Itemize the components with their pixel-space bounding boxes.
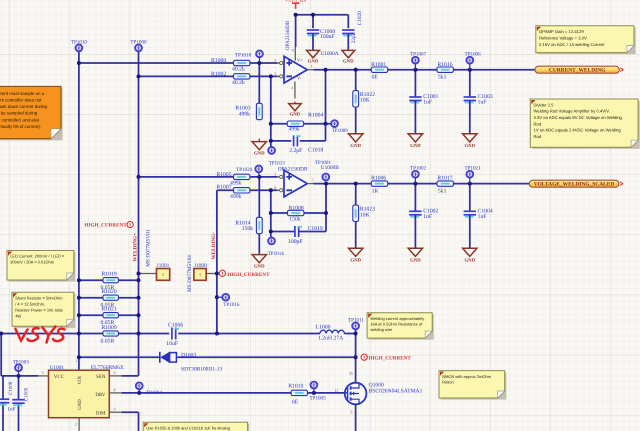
- svg-text:TP1020: TP1020: [236, 167, 253, 173]
- test point TP1006: [466, 57, 473, 64]
- svg-text:499k: 499k: [230, 181, 242, 187]
- wire stage2 R1014 column: [258, 177, 260, 254]
- note shunt resistor: [12, 292, 75, 328]
- wire RS- column from TP1000 down to shunt rows: [138, 51, 140, 334]
- svg-text:NMOS with approx 2mOhm: NMOS with approx 2mOhm: [442, 374, 492, 379]
- wire stage2 R1008 row: [271, 212, 289, 214]
- resistor R1008 feedback: [288, 210, 304, 215]
- resistor R1003: [256, 103, 262, 119]
- svg-text:R1019: R1019: [102, 272, 117, 278]
- wire stage1 output row to port: [314, 69, 536, 71]
- svg-text:R1009: R1009: [102, 325, 117, 331]
- wire J1001 stub: [139, 273, 157, 275]
- svg-text:GND: GND: [464, 257, 475, 263]
- wire stage2 feedback right vertical: [325, 184, 327, 232]
- wire C1002 column: [414, 184, 416, 212]
- svg-text:TP1007: TP1007: [410, 51, 427, 57]
- wire left edge drop to VCC row: [0, 334, 2, 376]
- svg-text:C1009: C1009: [24, 387, 30, 401]
- svg-text:3.3V on ADC equals 8V DC Volta: 3.3V on ADC equals 8V DC Voltage on Weld…: [534, 115, 623, 120]
- svg-text:R1016: R1016: [437, 62, 452, 68]
- resistor R1022 vertical: [353, 91, 359, 107]
- svg-text:GND: GND: [464, 143, 475, 149]
- note orange current-sampling (left edge, cut off): [0, 86, 63, 140]
- svg-text:499k: 499k: [230, 194, 242, 200]
- wire stage2 C1019 row: [271, 231, 295, 233]
- resistor R1010: [291, 390, 307, 395]
- svg-text:PWM always shuts down current: PWM always shuts down current during: [0, 104, 47, 109]
- wire diode row: [79, 356, 159, 358]
- svg-text:200mV / 20A = 0.01Ohm: 200mV / 20A = 0.01Ohm: [10, 260, 55, 265]
- svg-text:Rdson: Rdson: [442, 379, 454, 384]
- wire SEN segment colB down to U1001 SEN corner: [138, 334, 140, 376]
- wire C1020 stem: [347, 15, 349, 28]
- ground under C1020: [342, 50, 355, 57]
- svg-text:U1000A: U1000A: [320, 51, 338, 57]
- wire J1000 stub: [206, 273, 217, 275]
- svg-text:TP1003: TP1003: [13, 359, 30, 365]
- svg-text:Welding current approximately: Welding current approximately: [370, 316, 424, 321]
- wire U1001 gnd pin down: [78, 418, 80, 431]
- svg-text:R1005: R1005: [216, 172, 231, 178]
- capacitor C1006 series: [172, 328, 179, 340]
- wire VIN stub: [78, 334, 80, 371]
- resistor R1017: [437, 181, 453, 186]
- wire VSYS row colB to C1006: [139, 333, 170, 335]
- wire stage2 +input row from colB: [139, 176, 234, 178]
- svg-text:VCC: VCC: [54, 374, 65, 380]
- resistor R1023 vertical: [353, 205, 359, 221]
- svg-text:10K: 10K: [360, 212, 371, 218]
- svg-text:Use R1025 & 100k and C10218 1u: Use R1025 & 100k and C10218 1uF for Anal…: [146, 425, 230, 430]
- svg-text:1V on ADC equals 2.4VDC Volta: 1V on ADC equals 2.4VDC Voltage on Weldi…: [534, 128, 622, 133]
- svg-text:1.2uH 27A: 1.2uH 27A: [318, 336, 344, 342]
- svg-text:R1000: R1000: [211, 58, 226, 64]
- ground under U1000A V- pin: [294, 102, 296, 104]
- svg-text:CURRENT_WELDING: CURRENT_WELDING: [549, 68, 606, 74]
- test point TP1009: [331, 120, 338, 127]
- svg-text:0.05R: 0.05R: [101, 338, 115, 344]
- ground under C1000: [307, 50, 320, 57]
- svg-text:GND: GND: [410, 257, 421, 263]
- inductor L1000: [320, 330, 344, 333]
- svg-text:V+: V+: [297, 58, 303, 63]
- svg-text:HIGH_CURRENT: HIGH_CURRENT: [227, 272, 270, 278]
- note divider 2.5: [530, 99, 639, 149]
- resistor R1001: [371, 67, 387, 72]
- shunt resistor R1021: [103, 313, 119, 318]
- test point TP1001: [322, 174, 329, 181]
- svg-text:4: 4: [291, 85, 293, 90]
- IC U1001 EL7760RM6X: [49, 370, 110, 418]
- svg-text:L1000: L1000: [316, 325, 331, 331]
- test point TP1020: [255, 166, 262, 173]
- svg-text:Shunt Resistor = 50mOhm: Shunt Resistor = 50mOhm: [15, 296, 63, 301]
- svg-text:C1020: C1020: [357, 11, 363, 25]
- svg-text:5: 5: [42, 370, 44, 375]
- svg-text:0.15V on ADC / 1A welding Curr: 0.15V on ADC / 1A welding Current: [539, 42, 605, 47]
- capacitor C1018 series: [294, 135, 301, 146]
- svg-text:GND: GND: [254, 264, 265, 270]
- svg-text:GND: GND: [350, 257, 361, 263]
- pin 6 of U1000B: [278, 189, 284, 191]
- svg-text:Rod: Rod: [534, 121, 542, 126]
- capacitor C1019 series: [295, 226, 302, 237]
- svg-text:10uF: 10uF: [166, 341, 178, 347]
- pin 5 of U1000B: [278, 176, 284, 178]
- wire stage1 R1004 feedback row: [271, 123, 288, 125]
- wire C1004 column: [469, 184, 471, 212]
- svg-text:C1019: C1019: [308, 226, 323, 232]
- svg-text:Q1000: Q1000: [369, 382, 384, 388]
- test point TP1000: [135, 45, 142, 52]
- svg-text:U1001: U1001: [50, 365, 65, 371]
- wire stage1 feedback column colE down to TP1013: [270, 76, 272, 148]
- svg-text:D1003: D1003: [181, 353, 196, 359]
- test point TP1007: [412, 57, 419, 64]
- resistor R1005: [234, 174, 250, 179]
- resistor R1016: [437, 67, 453, 72]
- ground under C1001: [408, 134, 422, 142]
- svg-text:100nF: 100nF: [320, 34, 335, 40]
- svg-text:4: 4: [114, 387, 116, 392]
- svg-text:2: 2: [75, 422, 77, 427]
- wire VCC row: [1, 375, 38, 377]
- svg-text:5: 5: [274, 171, 276, 176]
- wire stage1 -input row: [139, 75, 234, 77]
- wire TP1011/Q1000 drain column: [355, 326, 357, 383]
- ground under R1023: [349, 248, 363, 256]
- svg-text:GND: GND: [343, 59, 354, 65]
- svg-text:TP1004: TP1004: [146, 390, 163, 396]
- wire V+ rail of U1000A to +3V3_RS: [295, 15, 297, 47]
- note NMOS rdson: [439, 371, 506, 400]
- shunt resistor R1019: [103, 278, 119, 283]
- ground under C1003: [463, 134, 477, 142]
- test point TP1013 at end of feedback column: [268, 147, 275, 154]
- svg-text:22µF: 22µF: [351, 32, 357, 43]
- svg-text:1: 1: [76, 358, 78, 363]
- test point TP1021: [466, 171, 473, 178]
- test point TP1011: [352, 323, 359, 330]
- test point TP1004: [136, 382, 143, 389]
- pin 6 SEN of U1001: [109, 375, 121, 377]
- wire RS+ column from TP1010 down to VSYS row: [78, 51, 80, 334]
- svg-text:HIGH_CURRENT: HIGH_CURRENT: [84, 223, 127, 229]
- svg-text:at full load (eventually 0A of: at full load (eventually 0A of current).: [0, 124, 41, 129]
- wire stage2 output row to port: [314, 183, 530, 185]
- resistor R1014 vertical: [256, 217, 262, 233]
- svg-text:R1004: R1004: [308, 112, 323, 118]
- svg-text:6: 6: [274, 185, 276, 190]
- pin 4 V- of U1000A: [294, 82, 296, 99]
- svg-text:R1021: R1021: [102, 307, 117, 313]
- svg-text:Reference Voltage = 3.0V: Reference Voltage = 3.0V: [539, 36, 587, 41]
- wire stage2 -input row from WELDING- column: [217, 189, 234, 191]
- svg-text:TP1010: TP1010: [71, 39, 88, 45]
- svg-text:6: 6: [114, 370, 116, 375]
- svg-text:C1018: C1018: [308, 147, 323, 153]
- pin 7 of U1000B: [307, 183, 313, 185]
- svg-text:R1010: R1010: [288, 383, 303, 389]
- test point TP1003: [15, 364, 22, 371]
- svg-text:GND: GND: [290, 112, 301, 118]
- note welding current: [367, 313, 434, 340]
- svg-text:The welding current must sampl: The welding current must sample on a: [0, 91, 45, 96]
- resistor R1004 feedback: [287, 121, 303, 126]
- net label HIGH_CURRENT at Q1000 drain: [361, 354, 367, 360]
- svg-text:Resistor Power = 1W, total: Resistor Power = 1W, total: [15, 308, 62, 313]
- wire VSYS row L1000 to TP1011 column: [344, 333, 355, 335]
- capacitor C1001: [409, 97, 421, 103]
- svg-text:HIGH_CURRENT: HIGH_CURRENT: [369, 356, 412, 362]
- svg-text:TP1016: TP1016: [223, 302, 240, 308]
- wire VSYS row C1006 to L1000: [178, 333, 320, 335]
- svg-text:40.2k: 40.2k: [232, 67, 245, 73]
- transistor Q1000 NMOS: [345, 383, 367, 405]
- test point TP1005: [311, 382, 318, 389]
- note use R1025 (bottom, cut off): [143, 422, 249, 431]
- wire C1001 column: [414, 70, 416, 97]
- wire R1023 column: [355, 184, 357, 248]
- svg-text:R1001: R1001: [371, 62, 386, 68]
- svg-text:BSC026N04LSATMA1: BSC026N04LSATMA1: [369, 389, 423, 395]
- wire C1009 column: [18, 376, 20, 399]
- svg-text:499k: 499k: [288, 127, 300, 133]
- svg-text:C1008: C1008: [8, 381, 14, 395]
- diode D1003: [160, 352, 177, 363]
- svg-text:0E: 0E: [292, 400, 299, 406]
- wire DRV/gate row: [121, 392, 344, 394]
- svg-text:150k: 150k: [289, 217, 301, 223]
- svg-text:off-time. It must be sampled d: off-time. It must be sampled during: [0, 111, 38, 116]
- svg-text:VIN: VIN: [77, 375, 83, 384]
- svg-text:R1017: R1017: [437, 175, 452, 181]
- svg-text:TP1018: TP1018: [235, 52, 252, 58]
- svg-text:OPA2156IDR: OPA2156IDR: [285, 20, 291, 50]
- svg-text:welding wire: welding wire: [370, 327, 393, 332]
- shunt resistor R1020: [103, 295, 119, 300]
- net label HIGH_CURRENT at J1000: [219, 270, 225, 276]
- svg-text:R1003: R1003: [235, 105, 250, 111]
- resistor R1006: [371, 181, 387, 186]
- ground under R1014 TP1014 label: [258, 254, 260, 255]
- op-amp U1000A: [284, 56, 307, 83]
- svg-text:TP1006: TP1006: [465, 51, 482, 57]
- svg-text:TP1000: TP1000: [130, 39, 147, 45]
- test point TP1018: [256, 50, 263, 57]
- ground under R1003: [258, 139, 260, 142]
- svg-text:1uF: 1uF: [7, 407, 15, 413]
- svg-text:TP1001: TP1001: [315, 160, 332, 166]
- svg-text:TP1021: TP1021: [465, 165, 482, 171]
- wire VSYS row left of colA: [1, 333, 79, 335]
- test point TP1002: [412, 171, 419, 178]
- svg-text:VOLTAGE_WELDING_SCALED: VOLTAGE_WELDING_SCALED: [534, 182, 615, 188]
- svg-text:V-: V-: [297, 75, 302, 80]
- svg-text:TP1002: TP1002: [410, 165, 427, 171]
- test point TP1016: [222, 294, 229, 301]
- note OPAMP gain: [536, 26, 636, 54]
- test point TP1010: [76, 45, 83, 52]
- svg-text:/ 4 = 12.5mOhm.: / 4 = 12.5mOhm.: [15, 302, 45, 307]
- svg-text:SEN: SEN: [96, 374, 106, 380]
- svg-text:40.2k: 40.2k: [232, 80, 245, 86]
- wire shunt rows between columns: [79, 279, 139, 281]
- resistor R1007: [234, 188, 250, 193]
- svg-text:TP1014: TP1014: [268, 251, 285, 257]
- test point TP1014: [268, 238, 275, 245]
- pin 5 VCC of U1001: [38, 375, 48, 377]
- pin 3 of U1000A: [278, 62, 284, 64]
- svg-text:R1008: R1008: [289, 205, 304, 211]
- svg-text:GND: GND: [77, 399, 83, 410]
- svg-text:GND: GND: [350, 143, 361, 149]
- svg-text:4W: 4W: [15, 314, 21, 319]
- wire stage1 R1003 column: [258, 63, 260, 104]
- svg-text:TP1009: TP1009: [332, 128, 349, 134]
- svg-text:10K: 10K: [360, 98, 371, 104]
- wire Q1000 source down: [355, 404, 357, 431]
- svg-text:LED Current: 200mV / I LED =: LED Current: 200mV / I LED =: [10, 254, 65, 259]
- wire stage2 feedback column colE to TP1014: [270, 190, 272, 238]
- ground under C1004: [463, 248, 477, 256]
- svg-text:2.2pF: 2.2pF: [289, 148, 302, 154]
- svg-text:WELDING-: WELDING-: [211, 232, 217, 260]
- svg-text:GND: GND: [410, 143, 421, 149]
- wire C1000 stem: [312, 15, 314, 28]
- capacitor C1003: [464, 97, 476, 103]
- ground under R1022: [349, 134, 363, 142]
- svg-text:DRV: DRV: [95, 392, 106, 398]
- svg-text:R1007: R1007: [216, 184, 231, 190]
- svg-text:fixed rate (current controller: fixed rate (current controller does not: [0, 97, 42, 102]
- svg-text:7: 7: [312, 178, 314, 183]
- svg-text:TP1005: TP1005: [310, 395, 327, 401]
- svg-text:C1006: C1006: [168, 322, 183, 328]
- svg-text:GND: GND: [308, 59, 319, 65]
- resistor R1000: [234, 60, 250, 65]
- capacitor C1020: [342, 30, 354, 36]
- capacitor C1002: [409, 211, 421, 217]
- svg-text:5k1: 5k1: [438, 75, 447, 81]
- svg-text:D: D: [349, 371, 352, 376]
- svg-text:OPAMP Gain = 12.4129: OPAMP Gain = 12.4129: [539, 29, 584, 34]
- wire WELDING- column down to J1000 and L row: [216, 190, 218, 333]
- svg-text:3: 3: [274, 58, 276, 63]
- svg-text:on-time (current controller) a: on-time (current controller) and also: [0, 117, 40, 122]
- capacitor C1004: [464, 211, 476, 217]
- capacitor C1009: [12, 400, 24, 406]
- svg-text:1nF: 1nF: [423, 214, 432, 220]
- wire stage1 C1018 feedback row: [271, 140, 292, 142]
- svg-text:OPA2156IDR: OPA2156IDR: [278, 166, 308, 172]
- svg-text:MS D077M5V01: MS D077M5V01: [145, 229, 151, 267]
- power port +3V3_RS: [292, 3, 299, 9]
- pin 4 DRV of U1001: [109, 392, 121, 394]
- svg-text:Divider 2.5: Divider 2.5: [534, 102, 555, 107]
- svg-text:+3V3_RS: +3V3_RS: [285, 0, 306, 4]
- svg-text:1nF: 1nF: [423, 99, 432, 105]
- svg-text:3: 3: [114, 407, 116, 412]
- wire stage1 feedback right vertical from output: [325, 70, 327, 141]
- wire stage1 +input row: [79, 62, 234, 64]
- capacitor C1000: [307, 30, 319, 36]
- svg-text:DIM: DIM: [96, 410, 106, 416]
- svg-text:R1020: R1020: [102, 289, 117, 295]
- svg-text:Welding Rod Voltage Amplifier: Welding Rod Voltage Amplifier by 0.4V/V.: [534, 109, 610, 114]
- pin 2 of U1000A: [278, 75, 284, 77]
- svg-text:1K: 1K: [372, 188, 380, 194]
- svg-text:1nF: 1nF: [478, 99, 487, 105]
- wire C1008 column: [2, 376, 4, 399]
- junction dots: [77, 61, 81, 65]
- capacitor C1008: [0, 399, 9, 405]
- pin 3 DIM of U1001: [109, 411, 121, 413]
- svg-text:WELDING+: WELDING+: [133, 233, 139, 262]
- svg-text:1nF: 1nF: [478, 214, 487, 220]
- svg-text:150k: 150k: [242, 226, 254, 232]
- svg-text:MS D077M5V01: MS D077M5V01: [187, 254, 193, 292]
- red scribble VSYS: [16, 327, 65, 343]
- svg-text:Rod: Rod: [534, 134, 542, 139]
- svg-text:SDT30B100D1-13: SDT30B100D1-13: [181, 366, 222, 372]
- ground under C1002: [408, 248, 422, 256]
- svg-text:8: 8: [292, 47, 294, 52]
- svg-text:U1000B: U1000B: [321, 165, 339, 171]
- svg-text:TP1011: TP1011: [348, 317, 364, 323]
- note LED current: [7, 251, 75, 282]
- op-amp U1000B: [284, 170, 307, 197]
- svg-text:EL7760RM6X: EL7760RM6X: [91, 365, 124, 371]
- wire C1003 column: [469, 70, 471, 97]
- svg-text:R1006: R1006: [371, 175, 386, 181]
- shunt resistor R1009: [103, 331, 119, 336]
- svg-text:16A at 0.5Ohm Resistance of: 16A at 0.5Ohm Resistance of: [370, 322, 423, 327]
- wire R1022 column: [355, 70, 357, 133]
- svg-text:2: 2: [274, 71, 276, 76]
- svg-text:R1002: R1002: [211, 71, 226, 77]
- wire DIM row: [121, 411, 138, 413]
- svg-text:0E: 0E: [372, 75, 379, 81]
- svg-text:499k: 499k: [239, 111, 251, 117]
- svg-text:5k1: 5k1: [438, 188, 447, 194]
- pin 1 of U1000A: [307, 69, 313, 71]
- svg-text:100pF: 100pF: [288, 239, 303, 245]
- resistor R1002: [234, 74, 250, 79]
- svg-text:GND: GND: [254, 151, 265, 157]
